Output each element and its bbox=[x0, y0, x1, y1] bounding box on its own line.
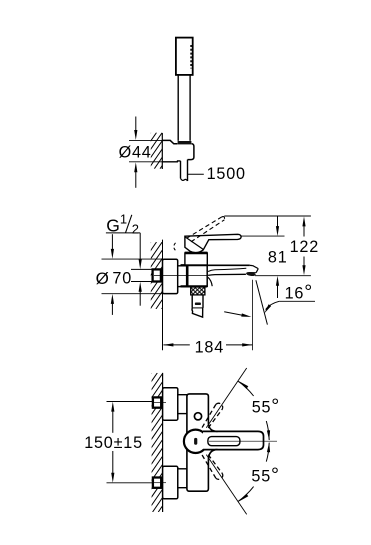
dimension 150+-15 bbox=[111, 402, 114, 412]
lever raised position (dashed) bbox=[187, 217, 222, 239]
svg-text:81: 81 bbox=[268, 248, 288, 266]
spray face texture bbox=[190, 45, 192, 69]
shower hose bbox=[180, 161, 182, 179]
svg-text:1500: 1500 bbox=[207, 165, 246, 183]
lever slot bbox=[208, 437, 240, 446]
dimension D44 extension lines bbox=[129, 139, 162, 141]
mixer main block (side view) bbox=[187, 265, 207, 286]
union centerline bbox=[154, 275, 207, 277]
55 deg arm upper bbox=[206, 368, 246, 428]
upper connector bbox=[178, 395, 187, 414]
lever swing dashed arc bbox=[174, 243, 177, 252]
spout outlet (mousseur) bbox=[246, 271, 256, 276]
mixer body (front view) bbox=[187, 394, 209, 491]
spout root fairing bbox=[208, 277, 212, 286]
flow reference line bbox=[252, 280, 254, 350]
wall union square (side view) bbox=[153, 269, 161, 281]
svg-text:Ø44: Ø44 bbox=[119, 143, 152, 161]
lower escutcheon (front view) bbox=[163, 466, 178, 499]
122 top extension line bbox=[224, 215, 311, 217]
55 deg arc lower bbox=[238, 487, 254, 502]
D70 extension lines bbox=[102, 258, 163, 260]
handle cone nut bbox=[178, 141, 192, 144]
hose connection tube bbox=[191, 295, 193, 308]
upper housing (side view) bbox=[185, 253, 207, 265]
hub keyway bbox=[194, 438, 197, 445]
wall line / 184 left extension bbox=[162, 240, 164, 351]
svg-text:Ø: Ø bbox=[96, 269, 110, 288]
shower holder bracket bbox=[162, 140, 177, 143]
svg-text:70: 70 bbox=[112, 269, 132, 287]
spout bbox=[207, 264, 250, 266]
svg-text:184: 184 bbox=[195, 338, 224, 356]
svg-text:55°: 55° bbox=[251, 465, 279, 487]
dimension D44 arrows bbox=[135, 117, 137, 133]
upper escutcheon (front view) bbox=[163, 388, 178, 421]
upper union square bbox=[153, 397, 161, 407]
hand shower head bbox=[176, 38, 193, 75]
lever rotated up (dashed) bbox=[202, 404, 216, 427]
dimension 122 bbox=[302, 216, 305, 226]
wall line (bottom section) bbox=[162, 373, 164, 512]
svg-text:150±15: 150±15 bbox=[84, 434, 143, 452]
svg-text:1: 1 bbox=[120, 211, 128, 226]
16 deg right arrow bbox=[266, 301, 280, 309]
G 1/2 dimension arrows bbox=[139, 233, 141, 261]
G 1/2 underline bbox=[106, 232, 140, 234]
lever handle (side view, solid) bbox=[185, 234, 241, 252]
16 deg left arrow bbox=[224, 312, 245, 316]
lever-body fillets bbox=[208, 424, 217, 432]
16 deg slant line bbox=[256, 280, 268, 324]
81 top extension line bbox=[241, 235, 285, 237]
lever centerline bbox=[209, 440, 277, 442]
lower union square bbox=[153, 478, 161, 488]
svg-text:122: 122 bbox=[290, 238, 319, 256]
55 deg arm lower bbox=[206, 455, 246, 515]
dimension 150+-15 extension lines bbox=[107, 401, 153, 403]
svg-text:2: 2 bbox=[132, 221, 140, 236]
supply axis centerline across body bbox=[163, 275, 208, 277]
D70 dimension arrows bbox=[111, 234, 113, 250]
outlet level extension line bbox=[255, 275, 311, 277]
wall line (top section) bbox=[161, 133, 163, 169]
diverter button bbox=[194, 413, 201, 420]
supply pipe stub lines bbox=[131, 268, 153, 270]
lever (front view) bbox=[184, 430, 207, 453]
55 deg arc upper bbox=[238, 381, 254, 396]
hand shower handle bbox=[177, 75, 179, 141]
body connector (side view) bbox=[178, 266, 188, 287]
lower connector bbox=[178, 469, 187, 488]
svg-text:16°: 16° bbox=[285, 281, 313, 303]
hose shank cut bbox=[192, 308, 203, 317]
dimension 81 bbox=[277, 216, 279, 227]
lever rotated down (dashed) bbox=[202, 455, 216, 478]
hose length leader bbox=[188, 173, 204, 175]
escutcheon (side view) bbox=[163, 259, 178, 293]
dimension 184 bbox=[163, 344, 189, 346]
svg-text:55°: 55° bbox=[252, 395, 280, 417]
